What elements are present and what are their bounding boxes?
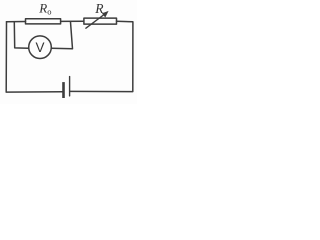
svg-text:R: R bbox=[38, 1, 47, 16]
svg-text:V: V bbox=[35, 40, 44, 55]
svg-text:o: o bbox=[47, 6, 51, 16]
svg-text:R: R bbox=[94, 1, 104, 16]
